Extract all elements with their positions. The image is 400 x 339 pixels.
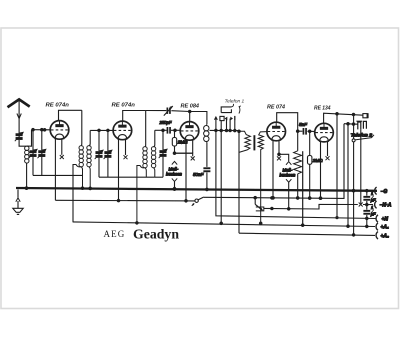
svg-text:µF: µF [371,211,376,216]
variable capacitor feedback [146,110,167,112]
wire V4 filament right [278,141,280,156]
svg-text:−N·A: −N·A [380,203,392,209]
wire return line stage2 [99,176,155,178]
terminal -G [375,187,377,194]
capacitor 50nF [203,167,210,169]
wire return line stage1 [33,174,83,176]
wire drop to +N [216,130,376,218]
wire antenna lead [18,101,20,134]
wire telefon2 row [344,123,358,126]
transformer T3 core [253,135,255,150]
node coil-bus [25,187,28,190]
switch heater [195,199,198,202]
trimmer capacitor stage2 b [107,130,109,151]
terminal +A2 [376,232,378,239]
wire filament jog [175,152,193,154]
svg-text:+N: +N [382,217,389,223]
wire V3 anode to choke [190,112,207,125]
svg-text:50nF: 50nF [193,172,205,177]
tube V4 RE074 [267,122,286,141]
transformer T1 secondary [89,130,90,145]
wire V5 anode [324,113,363,123]
svg-text:1: 1 [371,191,373,196]
wire +A1 line [73,222,375,227]
wire +A2 line [239,233,375,235]
svg-text:AEG: AEG [104,229,126,239]
measuring jacks 1 [172,161,177,164]
choke coil [204,126,209,131]
variable capacitor antenna trimmer [15,132,23,141]
svg-text:buchsen: buchsen [280,172,297,177]
wire V5 filament right [327,142,329,156]
transformer T1 primary [80,110,83,146]
wire drop to +A1 [220,131,222,224]
wire V4 filament left [272,141,274,198]
svg-text:RE 074n: RE 074n [46,102,70,108]
terminal +A1 [376,223,378,230]
wire coil top to grid wire [27,130,32,147]
svg-text:RE 084: RE 084 [181,103,200,109]
ground bus [16,188,377,191]
switch 2 [254,198,256,205]
capacitor 5nF [298,130,303,132]
wire V1 filament left [54,138,56,200]
wire line to -NA [264,204,358,209]
antenna [8,99,30,107]
X mark -NA [359,203,363,207]
svg-text:Telefon 1: Telefon 1 [225,99,245,104]
svg-text:+A₁: +A₁ [381,225,390,231]
ground [17,190,19,198]
svg-text:5nF: 5nF [299,122,308,127]
transformer T2 primary [144,111,147,147]
wire coil bottom to bus [26,163,28,188]
jack 2 [230,117,233,121]
capacitor 1uF lower [366,205,368,210]
wire to coil [19,140,26,146]
wire riser to +A1 line [72,165,74,222]
wire V2 filament right [125,139,127,155]
wire heater line a [55,199,194,202]
wire V1 filament right [61,139,63,155]
trimmer capacitor stage1 a [32,130,34,151]
transformer T2 secondary [154,130,155,147]
tube V5 RE134 [315,123,334,142]
plug pair telefon2 [358,122,361,129]
svg-text:RE 074n: RE 074n [112,102,136,108]
svg-text:RE 134: RE 134 [314,106,331,112]
measuring jacks 2 [279,154,289,161]
wire telefon row [210,129,240,131]
capacitor 1uF upper [366,191,368,196]
wire V3 anode [189,112,191,122]
tube V1 RE074n [50,121,69,140]
svg-text:buchsen: buchsen [166,171,183,176]
wire grid return to filament [175,153,193,156]
wire heater line b [204,124,344,199]
svg-text:+A₂: +A₂ [381,233,390,239]
svg-text:1: 1 [371,205,373,210]
Telefon 1 bracket [221,107,231,113]
coil L1 [25,146,29,163]
trimmer capacitor stage3 [162,130,164,150]
wire V2 anode [123,111,146,122]
wire grid wire stage 1 [32,129,51,131]
transformer T3 left winding [239,131,250,152]
resistor 2M grid leak [174,130,176,137]
jack output top [363,114,367,118]
wire V2 filament left [118,139,120,201]
wire V3 filament left [185,140,187,201]
terminal -NA [375,201,377,208]
wire grid wire stage 2 [90,129,113,131]
wire V3 filament right [192,140,194,153]
svg-text:RE 074: RE 074 [267,104,285,110]
transformer T3 right winding [258,132,267,224]
wire slider line [302,151,304,225]
wire grid wire stage 3 [155,129,167,131]
svg-text:−G: −G [381,189,388,195]
svg-text:2MΩ: 2MΩ [312,158,323,163]
switch telefon2 [352,139,355,142]
jack 1 [220,116,224,120]
wire verticals right block [336,114,338,218]
wire V4 anode [277,113,298,132]
wire V1 anode [59,110,82,120]
capacitor 250pF [167,127,169,134]
svg-text:250pF: 250pF [159,120,172,125]
terminal +N [376,215,378,222]
trimmer capacitor stage2 a [98,130,100,151]
trimmer capacitor stage1 b [41,130,43,151]
switch lever telefon1 [239,106,241,114]
jack arrow [214,116,218,120]
wire V5 filament left [320,142,322,199]
svg-text:Geadyn: Geadyn [133,228,179,243]
resistor 2M stage5 [309,131,311,155]
resistor bias zigzag [297,131,299,151]
wire T3 drop [238,131,240,234]
tube V3 RE084 [180,122,199,141]
wires jack drops [215,120,217,131]
svg-text:Telefon 2: Telefon 2 [351,132,373,137]
tube V2 RE074n [113,121,132,140]
